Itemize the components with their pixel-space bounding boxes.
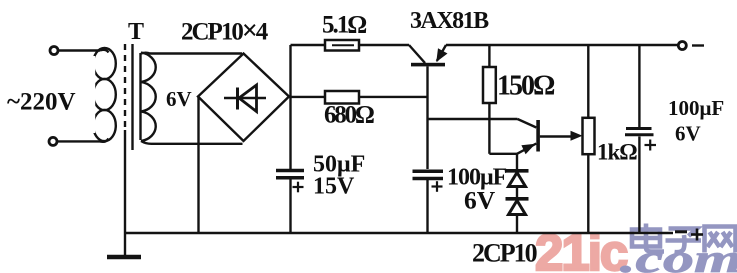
svg-text:.com: .com <box>620 237 737 273</box>
svg-text:1kΩ: 1kΩ <box>597 140 637 165</box>
svg-text:6V: 6V <box>166 87 192 111</box>
svg-text:150Ω: 150Ω <box>497 71 555 102</box>
svg-text:2CP10: 2CP10 <box>472 239 538 268</box>
svg-text:~220V: ~220V <box>7 89 76 116</box>
svg-text:680Ω: 680Ω <box>324 102 374 129</box>
svg-text:5.1Ω: 5.1Ω <box>322 12 366 39</box>
svg-text:2CP10×4: 2CP10×4 <box>181 16 269 47</box>
svg-text:21ic: 21ic <box>535 224 627 273</box>
svg-text:6V: 6V <box>464 186 496 215</box>
svg-text:3AX81B: 3AX81B <box>410 8 489 34</box>
svg-text:15V: 15V <box>313 174 355 200</box>
svg-text:6V: 6V <box>675 122 701 146</box>
svg-text:T: T <box>128 19 144 45</box>
svg-text:100μF: 100μF <box>668 96 724 120</box>
